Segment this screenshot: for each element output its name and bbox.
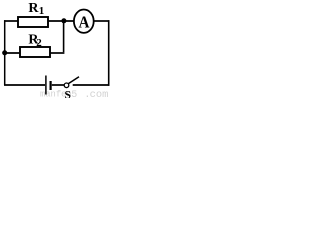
watermark manfen5.com — [40, 89, 108, 101]
svg-text:1: 1 — [39, 5, 45, 17]
wire: R2 left horizontal — [4, 52, 21, 54]
resistor R1 — [18, 17, 48, 27]
switch S blade — [68, 77, 79, 84]
wire: left rail vertical — [4, 20, 6, 85]
background — [0, 0, 110, 98]
wire: R2 right horizontal to vertical node wire — [50, 52, 64, 54]
svg-text:S: S — [65, 90, 71, 98]
wire: vertical from node down to R2 — [63, 21, 65, 52]
wire: ammeter to top-right corner — [94, 20, 110, 22]
svg-text:R: R — [28, 1, 39, 16]
wire: right rail vertical — [108, 20, 110, 86]
wire: R1 right horizontal to ammeter — [48, 20, 75, 22]
ammeter U1 circle — [74, 10, 94, 33]
node A junction dot — [61, 18, 66, 23]
switch S pivot circle — [64, 83, 69, 88]
wire: R1 left horizontal — [4, 20, 19, 22]
battery long plate — [45, 76, 47, 95]
wire: switch to bottom-right corner — [73, 84, 110, 86]
svg-text:com: com — [90, 89, 109, 98]
node junction dot on left rail — [2, 50, 7, 55]
battery short plate — [49, 81, 51, 90]
svg-text:2: 2 — [36, 37, 42, 49]
wire: battery to switch — [52, 84, 65, 86]
svg-text:A: A — [79, 13, 91, 32]
svg-text:5: 5 — [71, 90, 77, 98]
wire: bottom left horizontal to battery — [4, 84, 45, 86]
resistor R2 — [20, 47, 50, 57]
